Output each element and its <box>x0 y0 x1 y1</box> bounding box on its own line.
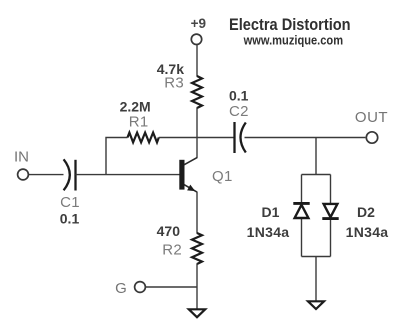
ground (right) <box>308 301 324 309</box>
svg-text:470: 470 <box>157 223 181 239</box>
diode box wires <box>302 175 331 257</box>
wire IN to C1 <box>29 174 64 176</box>
svg-text:+9: +9 <box>191 16 206 31</box>
svg-text:OUT: OUT <box>355 109 388 126</box>
wire out node to diode box <box>315 138 317 175</box>
wire R1 right to node <box>159 137 197 139</box>
svg-text:IN: IN <box>14 149 29 166</box>
svg-text:www.muzique.com: www.muzique.com <box>243 33 343 47</box>
terminal OUT <box>366 132 377 143</box>
wire R2 to ground <box>196 264 198 310</box>
svg-text:1N34a: 1N34a <box>247 224 290 240</box>
svg-text:0.1: 0.1 <box>60 210 80 226</box>
wire +9 to R3 <box>196 44 198 76</box>
terminal IN <box>18 169 29 180</box>
svg-text:Electra Distortion: Electra Distortion <box>229 15 351 34</box>
svg-text:R3: R3 <box>164 75 184 92</box>
wire R3 bottom to collector <box>196 108 198 158</box>
wire R1 left vertical <box>106 138 128 175</box>
svg-text:R2: R2 <box>162 241 182 258</box>
diode D2 <box>322 204 338 219</box>
wire G to R2 leg <box>145 286 197 288</box>
wire diode box to ground <box>315 257 317 302</box>
terminal +9 <box>191 34 201 44</box>
wire emitter to R2 <box>196 192 198 234</box>
capacitor C2 <box>235 122 246 153</box>
resistor R3 <box>192 76 202 108</box>
resistor R2 <box>192 233 202 264</box>
ground (left) <box>189 309 205 317</box>
terminal G <box>135 282 146 293</box>
svg-text:2.2M: 2.2M <box>120 99 151 115</box>
capacitor C1 <box>64 159 76 190</box>
svg-text:G: G <box>115 280 127 297</box>
svg-text:C2: C2 <box>229 103 249 120</box>
svg-text:0.1: 0.1 <box>229 87 249 103</box>
diode D1 <box>293 203 309 218</box>
svg-text:D2: D2 <box>357 204 375 220</box>
svg-text:C1: C1 <box>60 194 80 211</box>
svg-text:Q1: Q1 <box>212 168 233 185</box>
wire node to C2 <box>197 137 235 139</box>
resistor R1 <box>128 133 159 143</box>
wire C1 to base <box>76 174 180 176</box>
wire C2 to OUT <box>245 137 366 139</box>
svg-text:R1: R1 <box>129 114 149 131</box>
transistor Q1 <box>179 157 197 192</box>
svg-text:1N34a: 1N34a <box>346 224 389 240</box>
svg-text:D1: D1 <box>262 204 280 220</box>
